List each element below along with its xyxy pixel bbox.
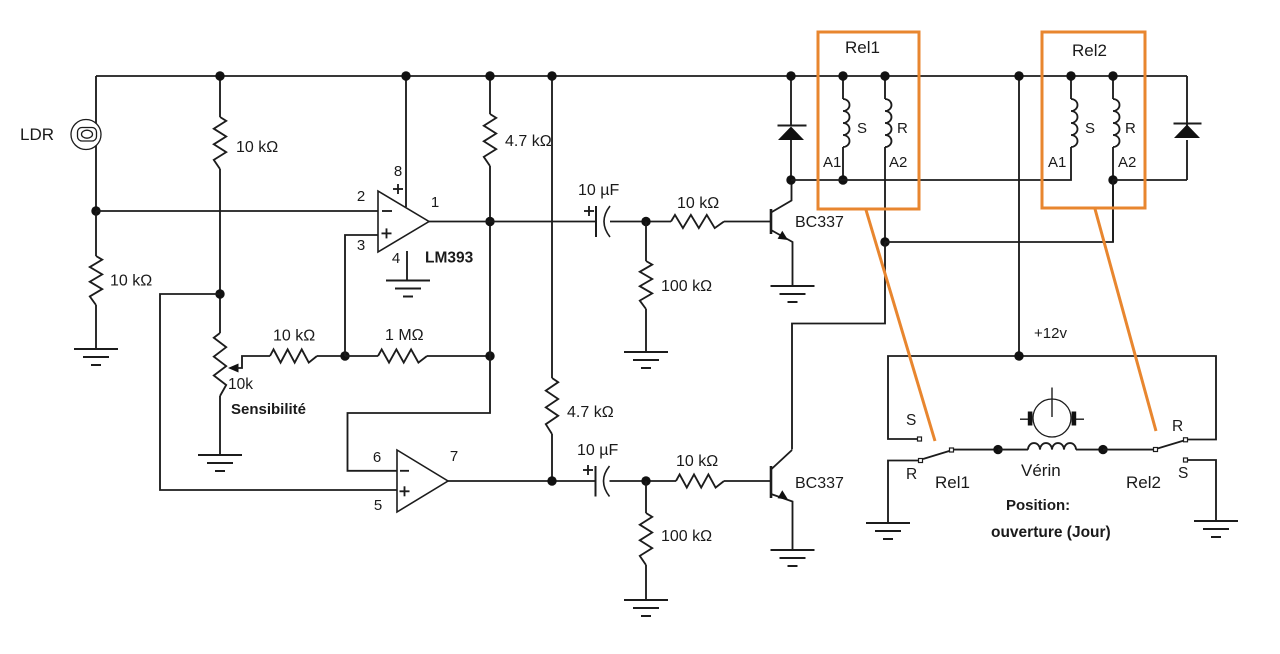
Q2 emitter [771,490,793,550]
wire A2 bus to Q2 collector [792,242,885,450]
svg-text:Position:: Position: [1006,497,1070,514]
svg-text:Sensibilité: Sensibilité [231,401,306,418]
ground Q1 emitter [771,286,815,302]
label +12v [1034,325,1067,342]
svg-text:10 kΩ: 10 kΩ [676,453,718,470]
motor Verin body [1020,388,1084,438]
svg-text:Rel1: Rel1 [845,38,880,57]
wire R9 to Q2 base [724,480,771,482]
junction Rel1-S rail [838,71,847,80]
resistor R1 10k upper divider [214,117,226,169]
wire R2 to ground [95,305,97,349]
label R Rel1 [897,120,908,137]
svg-text:5: 5 [374,497,382,514]
node A1 Rel1 junction [838,175,847,184]
label 10 k&#937; R3 [273,328,315,345]
ground sw1 [866,523,910,539]
label 4.7 k&#937; R6 [567,404,614,421]
wire A2 Rel2 to diode D2 [1113,179,1187,181]
terminal R contact sw2 [1184,438,1188,442]
resistor R2 10k lower divider [90,256,102,305]
label A2 Rel1 [889,154,907,171]
svg-text:R: R [1125,120,1136,137]
wire node D to op-amp2 pin6 [348,356,491,471]
node C junction [340,351,349,360]
svg-text:BC337: BC337 [795,214,844,231]
svg-text:1 MΩ: 1 MΩ [385,327,424,344]
svg-text:S: S [1085,120,1095,137]
ground pot [198,455,242,471]
label 10 &#181;F C1 [578,182,619,199]
junction +12v switch rail [1014,351,1023,360]
wire net A2 bus [885,180,1113,242]
Q2 collector [771,450,792,470]
resistor R7 10k base1 [671,215,724,228]
svg-text:100 kΩ: 100 kΩ [661,528,712,545]
wire U1B output [448,480,595,482]
svg-text:R: R [906,466,917,483]
svg-text:A2: A2 [889,154,907,171]
svg-text:10 kΩ: 10 kΩ [273,328,315,345]
node D junction [485,351,494,360]
svg-text:10 µF: 10 µF [578,182,619,199]
ground divider [74,349,118,365]
motor Verin winding [1028,443,1076,449]
junction Rel2-S rail [1066,71,1075,80]
label pin 3 [357,237,365,254]
label 10 &#181;F C2 [577,442,618,459]
resistor R5 4.7k pullup1 [484,76,496,356]
junction +12v rail [1014,71,1023,80]
U1A plus sign [382,228,392,238]
node motor left junction [993,445,1002,454]
wire motor coil right [1076,449,1103,451]
node U1A output junction [485,217,494,226]
svg-text:10 kΩ: 10 kΩ [110,273,152,290]
wire R7 to Q1 base [724,221,771,223]
transistor Q1 BC337 base bar [770,209,773,234]
resistor R4 1M hysteresis [378,349,427,362]
wire R3 to node C [317,355,345,357]
label BC337 Q1 [795,214,844,231]
node B junction pot top [215,289,224,298]
wire C1 to node E [610,221,671,223]
junction R1 top [215,71,224,80]
label pin 8 [394,163,402,180]
capacitor C2 10uF plus plate [595,466,597,497]
svg-text:10k: 10k [228,376,253,393]
svg-text:Vérin: Vérin [1021,461,1061,480]
label 1 M&#937; [385,327,424,344]
terminal S contact sw1 [918,437,922,441]
Q1 collector [771,180,792,213]
resistor R6 4.7k pullup2 [546,76,558,481]
label Sensibilit&#233; [231,401,306,418]
label Rel2 sw2 [1126,473,1161,492]
label Rel1 sw1 [935,473,970,492]
U1 pin8 plus sign [393,184,403,194]
label 100 k&#937; R8 [661,278,712,295]
svg-text:10 kΩ: 10 kΩ [236,139,278,156]
label S sw1 [906,412,916,429]
svg-text:S: S [906,412,916,429]
label 100 k&#937; R10 [661,528,712,545]
capacitor C1 curved plate [604,206,610,237]
svg-text:R: R [897,120,908,137]
label 10 k&#937; R1 [236,139,278,156]
resistor R10 100k bleed2 [640,481,652,600]
svg-text:1: 1 [431,194,439,211]
node A2 Rel1 junction [880,237,889,246]
node F junction [641,476,650,485]
label R Rel2 [1125,120,1136,137]
wire sw1 R to ground [888,461,918,524]
svg-text:LDR: LDR [20,125,54,144]
wire top +12V rail [96,75,1187,77]
wire motor to sw2 [1103,449,1154,451]
annotation box Rel1 [818,32,919,209]
svg-text:10 µF: 10 µF [577,442,618,459]
svg-text:3: 3 [357,237,365,254]
svg-text:R: R [1172,418,1183,435]
U1B plus sign [400,486,410,496]
label pin 7 [450,448,458,465]
wire R4 to node D [345,355,490,357]
wire sw2 S to ground [1187,460,1216,521]
label pin 6 [373,449,381,466]
label R sw2 [1172,418,1183,435]
ground sw2 [1194,521,1238,537]
label 10 k&#937; R2 [110,273,152,290]
svg-text:Rel2: Rel2 [1126,473,1161,492]
label pin 2 [357,188,365,205]
annotation pointer Rel2 [1095,209,1156,431]
wire C2 to node F [610,480,677,482]
relay Rel2 coil S [1071,76,1078,147]
label LDR [20,125,54,144]
terminal S contact sw2 [1184,458,1188,462]
junction D1 rail [786,71,795,80]
wire pot to ground [219,396,221,455]
wire node C to comparator pin3 [345,235,378,356]
resistor R3 10k wiper series [270,349,317,362]
svg-text:6: 6 [373,449,381,466]
diode D1 flyback Rel1 [778,76,807,180]
svg-text:100 kΩ: 100 kΩ [661,278,712,295]
terminal R contact sw1 [919,459,923,463]
node A2 Rel2 junction [1108,175,1117,184]
relay Rel1 coil R [885,76,892,242]
switch arm sw2 [1154,441,1185,452]
label BC337 Q2 [795,475,844,492]
label pin 5 [374,497,382,514]
wire pin5 feed [160,294,397,490]
svg-text:A1: A1 [823,154,841,171]
svg-text:S: S [1178,465,1188,482]
svg-text:ouverture (Jour): ouverture (Jour) [991,524,1111,541]
label pin 1 [431,194,439,211]
wire node A to R2 [95,211,97,256]
annotation box Rel2 [1042,32,1145,208]
junction Rel2-R rail [1108,71,1117,80]
diode D2 flyback Rel2 [1174,76,1202,180]
wire pin8 supply [405,76,407,207]
node E junction [641,217,650,226]
svg-text:Rel2: Rel2 [1072,41,1107,60]
junction Rel1-R rail [880,71,889,80]
capacitor C1 10uF plus plate [595,206,597,237]
label A2 Rel2 [1118,154,1136,171]
svg-text:Rel1: Rel1 [935,473,970,492]
wire R1 branch [219,76,221,117]
svg-text:2: 2 [357,188,365,205]
relay Rel1 coil S [843,76,850,180]
label 10 k&#937; R7 [677,195,719,212]
U1B minus sign [400,470,409,472]
wire switch frame top [888,356,1216,440]
ground R10 [624,600,668,616]
svg-text:4.7 kΩ: 4.7 kΩ [567,404,614,421]
label Rel2 box [1072,41,1107,60]
svg-text:A2: A2 [1118,154,1136,171]
label 4.7 k&#937; R5 [505,133,552,150]
label V&#233;rin [1021,461,1061,480]
node U1B output junction [547,476,556,485]
wire divider input to comparator pin2 [96,210,378,212]
LDR photoresistor [71,120,101,150]
label ouverture (Jour) [991,524,1111,541]
C2 plus sign [583,465,593,475]
capacitor C2 curved plate [604,466,610,497]
label R sw1 [906,466,917,483]
label A1 Rel2 [1048,154,1066,171]
wire LDR branch [95,76,97,211]
relay Rel2 coil R [1113,76,1120,242]
node motor right junction [1098,445,1107,454]
node D1-Q1 junction [786,175,795,184]
wire pin4 to ground [406,251,408,281]
ground R8 [624,352,668,368]
ground U1 pin4 [386,281,430,297]
wire R1 to pot [219,169,221,333]
svg-text:8: 8 [394,163,402,180]
svg-text:7: 7 [450,448,458,465]
annotation pointer Rel1 [866,210,935,441]
Q1 emitter [771,230,793,286]
junction R5 rail [485,71,494,80]
svg-text:S: S [857,120,867,137]
label pin 4 [392,250,400,267]
wire to motor coil [998,449,1028,451]
label S Rel2 [1085,120,1095,137]
wire net A1 bus [791,147,1071,180]
junction R6 rail [547,71,556,80]
svg-text:+12v: +12v [1034,325,1067,342]
ground Q2 emitter [771,550,815,566]
resistor R8 100k bleed1 [640,222,652,353]
svg-text:LM393: LM393 [425,250,474,267]
label S Rel1 [857,120,867,137]
svg-text:10 kΩ: 10 kΩ [677,195,719,212]
label 10k pot [228,376,253,393]
label 10 k&#937; R9 [676,453,718,470]
label A1 Rel1 [823,154,841,171]
wire U1A output [429,221,596,223]
resistor R9 10k base2 [676,474,724,487]
label Rel1 box [845,38,880,57]
U1A minus sign [382,210,392,212]
transistor Q2 BC337 base bar [770,466,773,498]
label S sw2 [1178,465,1188,482]
C1 plus sign [584,206,594,216]
wire sw1 to motor [954,449,999,451]
op-amp U1A LM393 pins 2-3-1 [378,191,429,252]
label Position: [1006,497,1070,514]
svg-text:A1: A1 [1048,154,1066,171]
node A junction [91,206,100,215]
label LM393 [425,250,474,267]
potentiometer P1 track [214,333,226,396]
svg-text:4.7 kΩ: 4.7 kΩ [505,133,552,150]
junction pin8 rail [401,71,410,80]
svg-text:BC337: BC337 [795,475,844,492]
potentiometer P1 wiper arrow [228,356,270,373]
switch arm sw1 [923,448,954,459]
op-amp U1B LM393 pins 6-5-7 [397,450,448,512]
svg-text:4: 4 [392,250,400,267]
wire +12v feed [1018,76,1020,356]
